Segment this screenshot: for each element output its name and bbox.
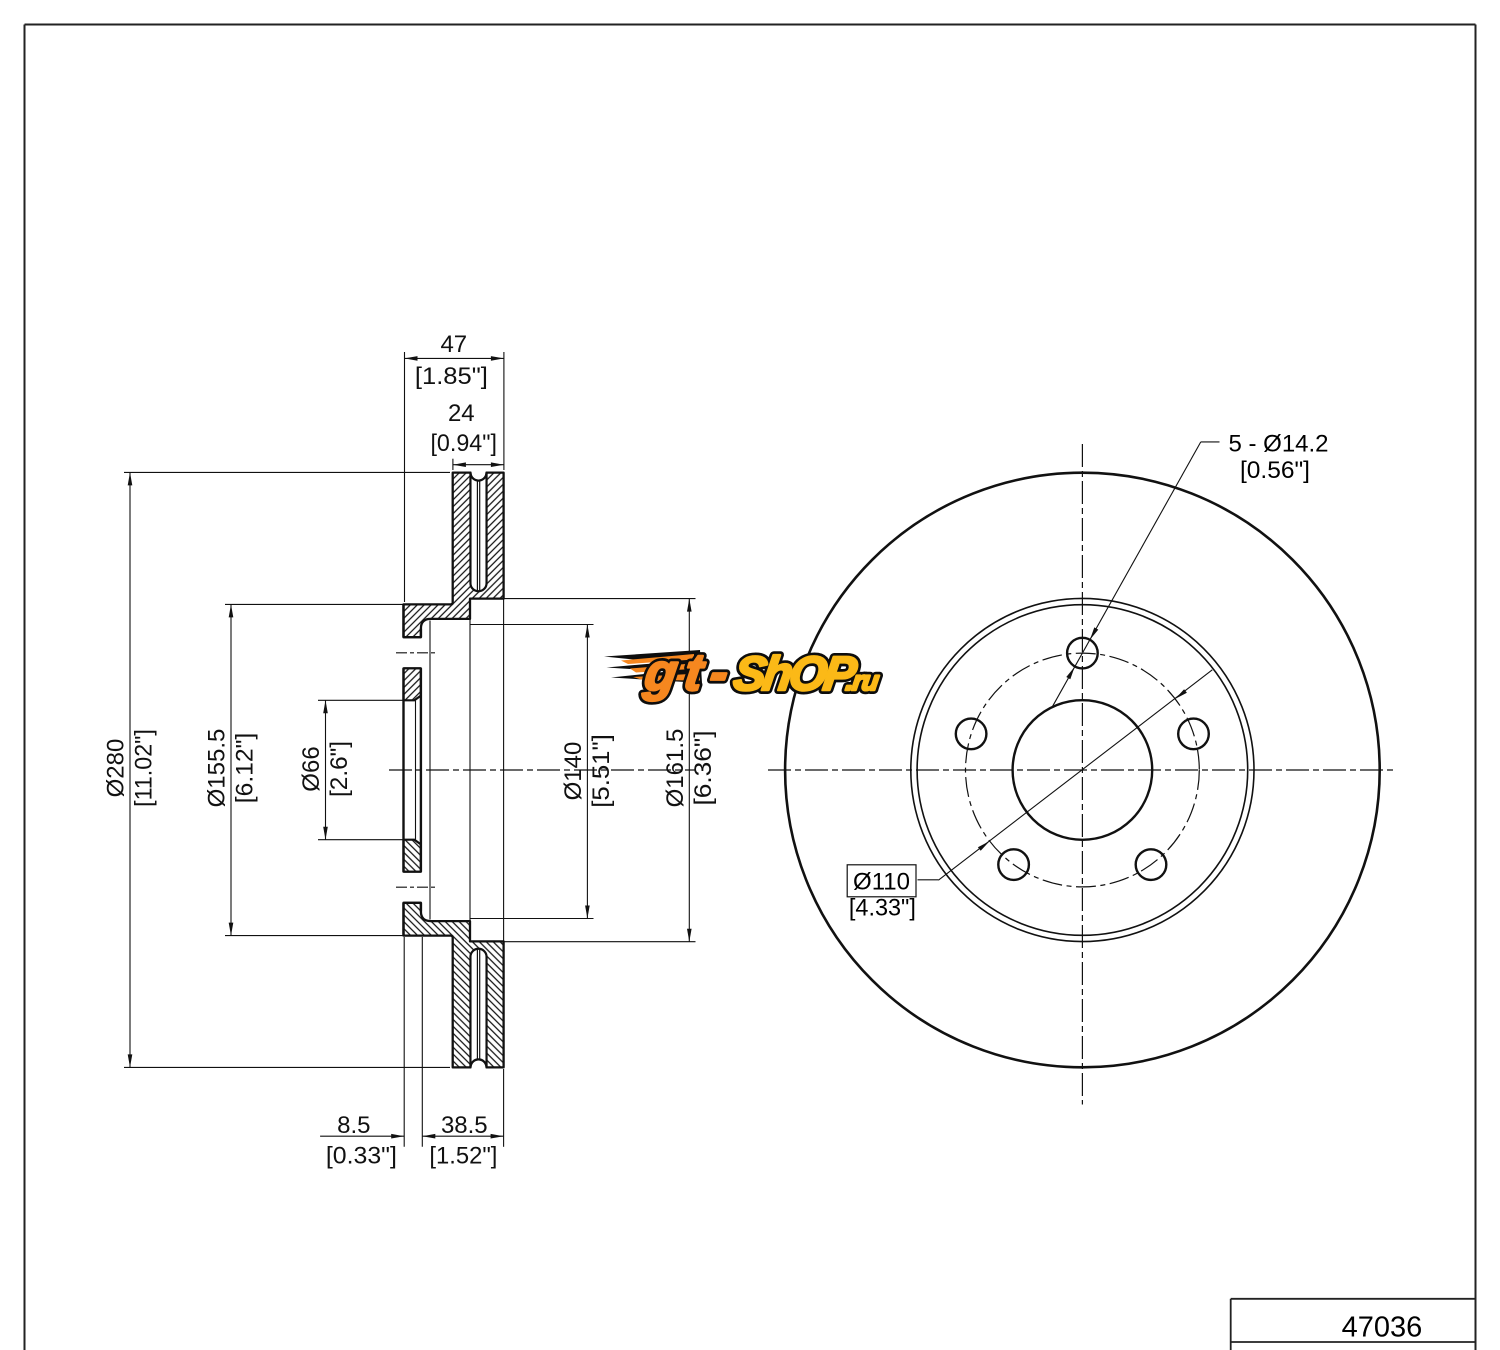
svg-text:[5.51"]: [5.51"] bbox=[588, 734, 615, 808]
svg-text:gt-: gt- bbox=[640, 644, 740, 702]
svg-text:[0.33"]: [0.33"] bbox=[326, 1142, 397, 1169]
bore chamfer edge line bbox=[415, 700, 417, 839]
title block bbox=[1231, 1299, 1476, 1350]
svg-text:8.5: 8.5 bbox=[337, 1112, 370, 1139]
svg-text:5 - Ø14.2: 5 - Ø14.2 bbox=[1228, 431, 1328, 458]
5-D14.2 leader line bbox=[1052, 442, 1201, 707]
svg-text:[11.02"]: [11.02"] bbox=[131, 729, 158, 807]
friction ring inner edge D155.5 bbox=[917, 605, 1248, 936]
vertical centerline bbox=[1081, 444, 1083, 1105]
hat drum inner visible edge bbox=[429, 621, 431, 920]
dim text D161.5 (rotated) bbox=[662, 729, 717, 808]
dim text D140 (rotated) bbox=[560, 734, 615, 808]
svg-text:Ø280: Ø280 bbox=[103, 739, 130, 798]
dimension lines bbox=[130, 358, 689, 1136]
svg-text:Ø161.5: Ø161.5 bbox=[662, 729, 689, 808]
svg-text:[6.12"]: [6.12"] bbox=[232, 733, 259, 804]
svg-text:47036: 47036 bbox=[1342, 1312, 1423, 1344]
svg-text:[1.85"]: [1.85"] bbox=[415, 363, 488, 390]
hat wall lower hatched piece (lower half) bbox=[404, 840, 421, 872]
svg-text:38.5: 38.5 bbox=[441, 1112, 488, 1139]
horizontal centerline bbox=[768, 769, 1394, 771]
D110 box bbox=[847, 865, 916, 897]
svg-text:Ø140: Ø140 bbox=[560, 742, 587, 801]
dim text D280 (rotated) bbox=[103, 729, 158, 807]
disc ring + hat flange hatched region (upper) bbox=[404, 473, 504, 638]
D110 arrowhead lower bbox=[978, 841, 990, 851]
svg-text:[0.94"]: [0.94"] bbox=[430, 430, 497, 457]
5-D14.2 arrowhead upper bbox=[1090, 627, 1098, 639]
vent vane edge lines bbox=[476, 481, 478, 590]
svg-text:[2.6"]: [2.6"] bbox=[326, 741, 353, 797]
wing black spikes bbox=[604, 650, 702, 683]
outer circle D280 bbox=[785, 473, 1380, 1068]
svg-text:24: 24 bbox=[448, 400, 475, 427]
disc ring + hat flange hatched region (lower) bbox=[404, 903, 504, 1068]
dim text D155.5 (rotated) bbox=[204, 729, 259, 808]
center bore D66 bbox=[1013, 700, 1153, 840]
bolt hole boundaries (section) bbox=[404, 637, 421, 903]
bolt hole lower-left bbox=[998, 849, 1029, 880]
svg-text:[4.33"]: [4.33"] bbox=[849, 894, 916, 921]
bolt hole upper-left bbox=[956, 719, 987, 750]
extension lines bbox=[124, 352, 696, 1147]
lower half of section (mirror) bbox=[404, 840, 504, 1068]
vent vane edge lines lower bbox=[476, 950, 478, 1059]
hat outer face line bbox=[402, 604, 404, 935]
svg-text:[6.36"]: [6.36"] bbox=[690, 731, 717, 806]
hat wall outer visible edge bbox=[469, 619, 471, 921]
svg-text:Ø110: Ø110 bbox=[853, 869, 910, 896]
bolt hole top bbox=[1067, 638, 1098, 669]
svg-text:[0.56"]: [0.56"] bbox=[1240, 457, 1310, 484]
svg-text:Ø155.5: Ø155.5 bbox=[204, 729, 231, 808]
hat wall lower hatched piece (upper half) bbox=[404, 668, 421, 700]
svg-text:ShOP: ShOP bbox=[730, 648, 860, 701]
logo text bbox=[640, 644, 884, 702]
svg-text:Ø66: Ø66 bbox=[298, 746, 325, 791]
bolt hole lower-right bbox=[1136, 849, 1167, 880]
hat inner face line bbox=[420, 629, 422, 912]
disc inboard face visible edge bbox=[503, 599, 505, 942]
D110 leader to box bbox=[918, 879, 939, 881]
bolt circle D110 (dash-dot) bbox=[966, 653, 1200, 887]
dim text D66 (rotated) bbox=[298, 741, 353, 797]
upper half of section bbox=[404, 473, 504, 701]
D110 dimension line (diagonal through center) bbox=[938, 670, 1212, 880]
section centerline bbox=[389, 769, 696, 771]
vent slot (white) lower bbox=[470, 949, 486, 1068]
friction ring inner edge D161.5 bbox=[911, 598, 1254, 941]
svg-text:47: 47 bbox=[440, 331, 467, 358]
5-D14.2 arrowhead lower bbox=[1066, 667, 1074, 679]
svg-text:.ru: .ru bbox=[844, 666, 881, 696]
wing orange streaks bbox=[621, 654, 694, 664]
bolt hole center ticks bbox=[396, 653, 438, 887]
bolt hole upper-right bbox=[1178, 719, 1209, 750]
vent slot (white) with rounded notch and bottom bbox=[470, 473, 486, 592]
arrowheads bbox=[128, 356, 692, 1138]
D110 arrowhead upper bbox=[1175, 689, 1187, 699]
svg-text:[1.52"]: [1.52"] bbox=[429, 1142, 497, 1169]
